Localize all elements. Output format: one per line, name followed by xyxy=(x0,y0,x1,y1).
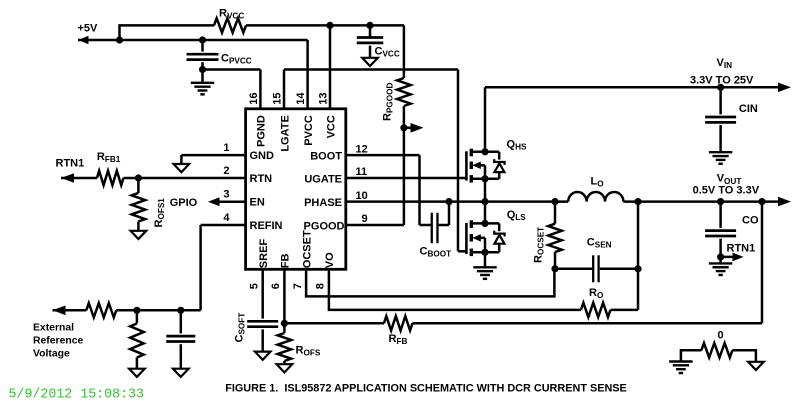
svg-text:LGATE: LGATE xyxy=(279,115,291,151)
svg-text:REFIN: REFIN xyxy=(250,220,283,232)
svg-text:8: 8 xyxy=(315,283,327,289)
svg-text:GND: GND xyxy=(250,150,275,162)
svg-text:10: 10 xyxy=(356,190,368,202)
svg-text:16: 16 xyxy=(248,93,260,105)
svg-text:0: 0 xyxy=(717,329,723,341)
svg-text:14: 14 xyxy=(295,92,307,105)
svg-text:SREF: SREF xyxy=(258,239,270,269)
svg-text:VO: VO xyxy=(324,252,336,268)
svg-text:7: 7 xyxy=(292,283,304,289)
svg-text:11: 11 xyxy=(356,166,368,178)
svg-text:6: 6 xyxy=(270,283,282,289)
svg-text:CO: CO xyxy=(742,215,759,227)
svg-text:15: 15 xyxy=(271,93,283,105)
svg-text:External: External xyxy=(33,322,74,333)
svg-text:RTN1: RTN1 xyxy=(56,157,85,169)
svg-text:RTN: RTN xyxy=(250,173,273,185)
svg-text:PHASE: PHASE xyxy=(304,197,342,209)
svg-text:Reference: Reference xyxy=(33,335,83,346)
svg-text:FB: FB xyxy=(280,253,292,268)
svg-text:3: 3 xyxy=(223,189,229,201)
svg-text:9: 9 xyxy=(362,213,368,225)
svg-text:2: 2 xyxy=(223,165,229,177)
svg-text:UGATE: UGATE xyxy=(304,173,342,185)
svg-text:0.5V TO 3.3V: 0.5V TO 3.3V xyxy=(693,185,760,197)
svg-text:BOOT: BOOT xyxy=(310,150,342,162)
svg-text:5: 5 xyxy=(249,283,261,289)
svg-text:FIGURE 1. ISL95872 APPLICATIO: FIGURE 1. ISL95872 APPLICATION SCHEMATIC… xyxy=(225,382,627,394)
svg-text:GPIO: GPIO xyxy=(170,197,198,209)
svg-text:Voltage: Voltage xyxy=(33,348,70,359)
svg-text:PVCC: PVCC xyxy=(303,115,315,146)
svg-text:1: 1 xyxy=(223,142,229,154)
svg-text:3.3V TO 25V: 3.3V TO 25V xyxy=(690,74,754,86)
svg-text:PGND: PGND xyxy=(256,115,268,147)
svg-text:4: 4 xyxy=(223,212,230,224)
svg-text:RTN1: RTN1 xyxy=(727,243,756,255)
svg-text:+5V: +5V xyxy=(78,23,99,35)
svg-text:CIN: CIN xyxy=(739,103,758,115)
svg-text:EN: EN xyxy=(250,197,265,209)
svg-text:OCSET: OCSET xyxy=(301,230,313,268)
svg-text:12: 12 xyxy=(356,143,368,155)
svg-text:VCC: VCC xyxy=(325,115,337,138)
svg-text:13: 13 xyxy=(317,93,329,105)
svg-text:5/9/2012 15:08:33: 5/9/2012 15:08:33 xyxy=(9,388,145,403)
